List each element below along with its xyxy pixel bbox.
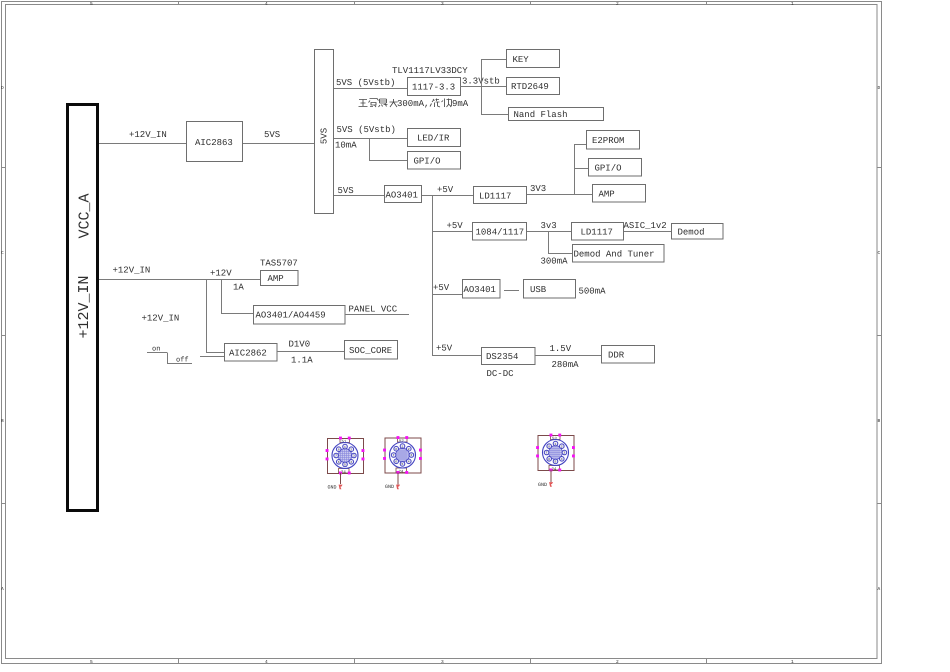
block DDR [602,346,655,364]
svg-text:AIC2863: AIC2863 [195,138,233,148]
block E2PROM [587,131,640,150]
svg-text:7: 7 [393,454,395,457]
svg-text:7: 7 [546,452,548,455]
svg-text:RTD2649: RTD2649 [511,82,549,92]
svg-text:8: 8 [548,445,550,448]
svg-text:300mA: 300mA [541,257,569,267]
svg-text:1: 1 [791,660,794,665]
svg-text:C: C [1,250,4,256]
svg-text:Demod And Tuner: Demod And Tuner [574,250,655,260]
svg-text:5: 5 [90,2,93,7]
regulator 1117-3.3 [408,78,461,96]
svg-text:5VS (5Vstb): 5VS (5Vstb) [336,78,395,88]
wire J2 ground [397,473,399,485]
regulator 1084/1117 [473,223,527,241]
svg-text:3: 3 [410,454,412,457]
svg-text:LED/IR: LED/IR [417,134,450,144]
regulator AIC2863 [187,122,243,162]
svg-text:1: 1 [791,2,794,7]
block AMP 3V3 [593,185,646,203]
block USB [524,280,576,299]
wire 5VS from AIC2863 to 5VS bus [243,130,314,144]
svg-text:300mA,: 300mA, [397,99,429,109]
ground J2 [385,484,400,490]
svg-text:B: B [878,419,881,424]
connector J3 [536,434,575,472]
svg-text:8: 8 [338,448,340,451]
svg-text:+5V: +5V [437,185,454,195]
svg-text:3v3: 3v3 [541,221,557,231]
svg-text:1117-3.3: 1117-3.3 [412,83,455,93]
svg-text:9mA: 9mA [452,99,469,109]
svg-text:D: D [1,86,4,91]
svg-text:7: 7 [335,455,337,458]
mosfet AO3401 [385,186,422,203]
svg-text:10mA: 10mA [335,141,357,151]
wire 3v3 to LD1117 2 [527,221,571,232]
svg-text:5VS: 5VS [338,186,354,196]
svg-text:AMP: AMP [599,190,615,200]
svg-text:1084/1117: 1084/1117 [476,228,525,238]
block Demod And Tuner [573,245,665,263]
svg-text:GPI/O: GPI/O [595,164,622,174]
svg-text:AO3401: AO3401 [386,191,418,201]
svg-text:+12V_IN: +12V_IN [113,266,151,276]
svg-text:E2PROM: E2PROM [592,136,624,146]
wire 5VS (5Vstb) 10mA to LED/IR [334,125,407,151]
svg-text:D1V0: D1V0 [289,340,311,350]
svg-text:+12V_IN: +12V_IN [129,130,167,140]
wire 3.3Vstb [460,77,506,87]
svg-text:1: 1 [402,445,404,448]
svg-text:2: 2 [616,659,619,665]
svg-text:5: 5 [555,461,557,464]
wire +5V to 1084/1117 [432,221,472,232]
wire +5V to AO3401 2 [432,283,462,295]
block RTD2649 [507,78,560,95]
svg-text:3: 3 [441,1,444,7]
node +12V branch vertical to panel [221,280,253,314]
regulator LD1117 2 [572,223,624,241]
svg-text:DDR: DDR [608,351,625,361]
wire 5VS to AO3401 [334,186,384,196]
svg-text:+5V: +5V [447,221,464,231]
svg-text:5: 5 [90,660,93,665]
svg-text:+12V_IN: +12V_IN [76,275,93,338]
wire 3V3 LD1117 to AMP [527,184,592,195]
svg-text:3: 3 [563,452,565,455]
wire branch to GPI/O [369,139,407,161]
node 3v3 branch vertical [548,232,550,254]
connector J2 [383,436,422,474]
svg-text:2: 2 [350,448,352,451]
svg-text:AO3401: AO3401 [464,285,496,295]
block GPI/O 2 [589,159,642,177]
wire 5VS (5Vstb) to 1117-3.3 [334,78,407,89]
svg-text:GND: GND [328,485,337,491]
svg-text:PANEL VCC: PANEL VCC [349,305,398,315]
node 3.3Vstb branch vertical [481,60,483,115]
block KEY [507,50,560,68]
svg-text:4: 4 [350,461,352,464]
wire PANEL VCC [345,305,409,315]
svg-text:D: D [878,86,881,91]
wire +5V to DS2354 [432,344,481,356]
svg-text:5VS: 5VS [264,130,280,140]
block GPI/O [408,152,461,170]
svg-text:AMP: AMP [268,274,284,284]
wire AO3401 2 to USB [504,290,519,292]
svg-text:500mA: 500mA [579,287,607,297]
svg-text:1.5V: 1.5V [550,344,572,354]
svg-text:1: 1 [344,446,346,449]
svg-text:DC-DC: DC-DC [487,369,515,379]
svg-text:6: 6 [548,458,550,461]
svg-text:Nand Flash: Nand Flash [514,110,568,120]
node 5VS bus bar [315,50,334,214]
node +12V_IN branch vertical to AIC2862 [206,280,225,353]
ground J1 [328,485,343,491]
svg-text:6: 6 [338,461,340,464]
mosfet AO3401/AO4459 [254,306,346,325]
node 3V3 branch vertical [574,145,576,195]
wire to E2PROM [574,144,587,146]
mosfet AO3401 2 [463,280,501,299]
ground J3 [538,482,553,488]
wire to KEY [481,59,506,61]
wire 1.5V 280mA to DDR [535,344,601,370]
svg-text:2: 2 [408,448,410,451]
svg-text:B: B [1,419,4,424]
wire D1V0 1.1A to SOC_CORE [277,340,344,366]
svg-text:+5V: +5V [436,344,453,354]
regulator LD1117 [474,187,527,204]
svg-text:GND: GND [385,484,394,490]
svg-text:A: A [878,587,881,592]
svg-text:3: 3 [353,455,355,458]
wire +12V_IN lower to AMP [99,266,260,293]
svg-text:TLV1117LV33DCY: TLV1117LV33DCY [392,66,468,76]
svg-text:+12V_IN: +12V_IN [142,314,180,324]
svg-text:off: off [176,356,189,365]
power bus VCC_A / +12V_IN [68,105,98,511]
svg-text:1: 1 [555,443,557,446]
wire to Nand Flash [481,114,508,116]
regulator AIC2862 [225,344,278,362]
block Demod [672,224,724,240]
svg-text:5: 5 [402,463,404,466]
svg-text:LD1117: LD1117 [479,192,511,202]
svg-text:Demod: Demod [678,228,705,238]
svg-text:6: 6 [395,461,397,464]
svg-text:4: 4 [265,2,268,7]
node +5V trunk [432,196,434,356]
wire ASIC_1v2 to Demod [624,221,672,232]
svg-text:A: A [1,587,4,592]
svg-text:4: 4 [561,458,563,461]
wire 300mA to Demod And Tuner [541,254,573,267]
svg-text:ASIC_1v2: ASIC_1v2 [624,221,667,231]
block Nand Flash [509,108,604,121]
wire +12V_IN to AIC2863 [99,130,186,144]
svg-text:3.3Vstb: 3.3Vstb [462,77,500,87]
svg-text:AIC2862: AIC2862 [229,349,267,359]
block SOC_CORE [345,341,398,360]
svg-text:3: 3 [441,659,444,665]
svg-text:TAS5707: TAS5707 [260,259,298,269]
svg-text:280mA: 280mA [552,360,580,370]
block AMP TAS5707 [261,271,299,286]
svg-text:5VS: 5VS [320,128,330,144]
svg-text:LD1117: LD1117 [581,228,613,238]
wire J1 ground [340,473,342,484]
svg-text:KEY: KEY [513,55,530,65]
wire +5V AO3401 to LD1117 [422,185,473,196]
wire J3 ground [550,470,552,482]
svg-text:USB: USB [530,285,547,295]
svg-text:GND: GND [538,482,547,488]
svg-text:4: 4 [408,461,410,464]
svg-text:4: 4 [265,660,268,665]
svg-text:DS2354: DS2354 [486,352,518,362]
wire to GPI/O 2 [574,168,588,170]
svg-text:1A: 1A [233,283,244,293]
svg-text:2: 2 [561,445,563,448]
svg-text:AO3401/AO4459: AO3401/AO4459 [256,311,326,321]
block LED/IR [408,129,461,147]
svg-text:+5V: +5V [433,283,450,293]
value label 正常最大300mA,待机9mA [359,99,469,110]
connector J1 [326,437,365,475]
svg-text:SOC_CORE: SOC_CORE [349,346,392,356]
svg-text:C: C [878,250,881,256]
svg-text:5: 5 [344,464,346,467]
svg-text:2: 2 [616,1,619,7]
switch on/off [147,346,225,365]
regulator DS2354 DC-DC [482,348,536,380]
svg-text:5VS (5Vstb): 5VS (5Vstb) [337,125,396,135]
svg-text:VCC_A: VCC_A [77,193,94,238]
svg-text:+12V: +12V [210,269,232,279]
svg-text:8: 8 [395,448,397,451]
svg-text:3V3: 3V3 [530,184,546,194]
svg-text:1.1A: 1.1A [291,356,313,366]
svg-text:GPI/O: GPI/O [414,157,441,167]
